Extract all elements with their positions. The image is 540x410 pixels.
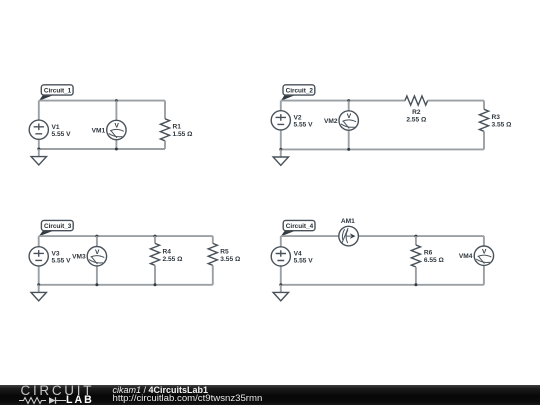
node label Circuit_3	[39, 220, 73, 236]
junction: R6 top	[414, 235, 417, 238]
svg-text:Circuit_3: Circuit_3	[44, 223, 72, 230]
junction: V3 bottom	[37, 283, 40, 286]
svg-text:5.55 V: 5.55 V	[294, 258, 314, 265]
voltmeter VM3	[72, 236, 106, 285]
wire: top net circuit 2 right of R2	[428, 100, 484, 102]
svg-text:3.55 Ω: 3.55 Ω	[220, 256, 241, 263]
svg-text:VM1: VM1	[92, 127, 106, 134]
resistor R2 2.55 Ω	[405, 96, 428, 123]
CircuitLab logo: CIRCUIT text	[21, 383, 95, 398]
svg-text:V: V	[114, 123, 119, 130]
svg-text:Circuit_2: Circuit_2	[286, 87, 314, 94]
svg-text:5.55 V: 5.55 V	[52, 131, 72, 138]
svg-text:2.55 Ω: 2.55 Ω	[406, 116, 427, 123]
junction: R6 bottom	[414, 283, 417, 286]
svg-text:5.55 V: 5.55 V	[294, 122, 314, 129]
ground	[31, 285, 46, 301]
svg-text:VM4: VM4	[459, 253, 473, 260]
ground	[273, 285, 288, 301]
junction: VM1 top	[115, 99, 118, 102]
svg-text:V: V	[95, 249, 100, 256]
junction: VM3 bottom	[95, 283, 98, 286]
voltmeter VM2	[324, 101, 358, 150]
junction: VM2 bottom	[347, 148, 350, 151]
resistor R6 6.55 Ω	[411, 236, 444, 285]
voltmeter VM1	[92, 101, 126, 149]
junction: R4 top	[154, 235, 157, 238]
wire: bottom net circuit 1	[39, 148, 165, 150]
ground	[273, 149, 288, 165]
ground	[31, 149, 46, 165]
footer url text	[113, 393, 263, 404]
resistor R1 1.55 Ω	[160, 101, 193, 149]
svg-text:R3: R3	[492, 114, 501, 121]
junction: VM2 top	[347, 99, 350, 102]
footer bar	[0, 385, 540, 405]
svg-text:V: V	[482, 248, 487, 255]
voltmeter VM4	[459, 236, 494, 285]
resistor R3 3.55 Ω	[479, 101, 512, 150]
CircuitLab logo: LAB text	[66, 394, 94, 406]
svg-text:5.55 V: 5.55 V	[52, 258, 72, 265]
voltage source V3 5.55 V	[29, 236, 71, 285]
resistor R4 2.55 Ω	[150, 236, 183, 285]
voltage source V1 5.55 V	[29, 101, 71, 149]
wire: top net circuit 1	[39, 100, 165, 102]
wire: bottom net circuit 2	[281, 148, 484, 150]
junction: V4 bottom	[279, 283, 282, 286]
junction: R4 bottom	[154, 283, 157, 286]
wire: bottom net circuit 3	[39, 284, 213, 286]
svg-text:AM1: AM1	[341, 218, 355, 225]
svg-text:R2: R2	[412, 109, 421, 116]
voltage source V2 5.55 V	[271, 101, 313, 150]
voltage source V4 5.55 V	[271, 236, 313, 285]
svg-text:R6: R6	[424, 250, 433, 257]
wire: bottom net circuit 4	[281, 284, 484, 286]
svg-text:R4: R4	[163, 248, 172, 255]
node label Circuit_2	[281, 85, 315, 101]
wire: top net circuit 2 left of R2	[281, 100, 405, 102]
node label Circuit_4	[281, 220, 315, 236]
resistor R5 3.55 Ω	[208, 236, 241, 285]
svg-text:3.55 Ω: 3.55 Ω	[492, 121, 513, 128]
svg-text:Circuit_4: Circuit_4	[286, 223, 314, 230]
svg-text:V: V	[347, 113, 352, 120]
ammeter AM1	[281, 218, 484, 246]
svg-text:6.55 Ω: 6.55 Ω	[424, 257, 445, 264]
junction: VM1 bottom	[115, 148, 118, 151]
junction: V1 bottom	[37, 148, 40, 151]
footer title text	[113, 385, 209, 395]
wire: top net circuit 3	[39, 235, 213, 237]
svg-text:VM2: VM2	[324, 118, 338, 125]
svg-text:VM3: VM3	[72, 254, 86, 261]
junction: VM3 top	[95, 235, 98, 238]
svg-text:R1: R1	[173, 123, 182, 130]
junction: V2 bottom	[279, 148, 282, 151]
svg-text:R5: R5	[220, 248, 229, 255]
node label Circuit_1	[39, 85, 73, 101]
svg-text:2.55 Ω: 2.55 Ω	[163, 256, 184, 263]
svg-text:Circuit_1: Circuit_1	[44, 87, 72, 94]
CircuitLab logo: resistor+diode glyph	[19, 396, 69, 405]
svg-text:1.55 Ω: 1.55 Ω	[173, 131, 194, 138]
